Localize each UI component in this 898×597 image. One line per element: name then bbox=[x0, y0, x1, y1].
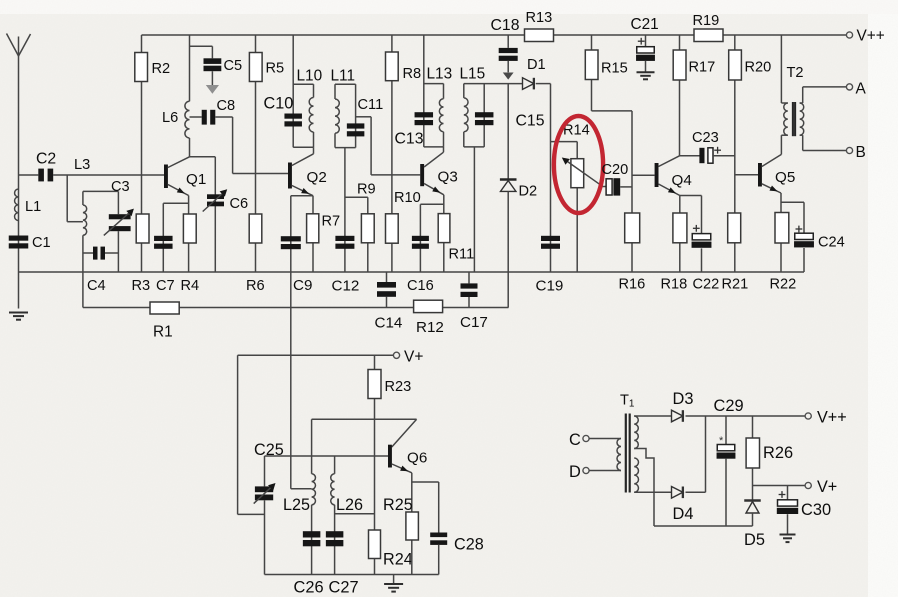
svg-text:C21: C21 bbox=[631, 16, 659, 33]
svg-text:Q1: Q1 bbox=[186, 171, 206, 188]
svg-text:V++: V++ bbox=[817, 409, 847, 427]
svg-text:R18: R18 bbox=[661, 277, 688, 293]
svg-text:R13: R13 bbox=[526, 10, 553, 26]
svg-text:C23: C23 bbox=[692, 130, 719, 146]
svg-text:C1: C1 bbox=[32, 235, 51, 251]
svg-text:R6: R6 bbox=[246, 278, 265, 294]
svg-text:D1: D1 bbox=[527, 57, 546, 73]
svg-text:R19: R19 bbox=[693, 13, 720, 29]
svg-text:C25: C25 bbox=[254, 441, 284, 459]
svg-text:C29: C29 bbox=[714, 397, 744, 415]
svg-text:Q3: Q3 bbox=[438, 169, 458, 186]
svg-text:C2: C2 bbox=[36, 151, 56, 168]
svg-text:R9: R9 bbox=[357, 182, 376, 198]
svg-text:C3: C3 bbox=[111, 179, 130, 195]
svg-text:R20: R20 bbox=[745, 60, 772, 76]
svg-text:R1: R1 bbox=[153, 324, 173, 341]
svg-text:D4: D4 bbox=[673, 505, 694, 523]
svg-text:R21: R21 bbox=[722, 277, 749, 293]
svg-text:Q2: Q2 bbox=[307, 169, 327, 186]
svg-text:R15: R15 bbox=[601, 61, 628, 77]
svg-text:Q5: Q5 bbox=[775, 169, 795, 186]
svg-text:R24: R24 bbox=[383, 551, 413, 569]
svg-text:V++: V++ bbox=[857, 28, 885, 45]
svg-text:*: * bbox=[719, 435, 724, 447]
svg-text:C13: C13 bbox=[395, 131, 424, 148]
svg-text:Q4: Q4 bbox=[672, 172, 692, 189]
svg-text:C12: C12 bbox=[332, 278, 360, 295]
svg-text:L6: L6 bbox=[162, 110, 178, 126]
svg-text:C11: C11 bbox=[358, 97, 384, 113]
svg-text:L3: L3 bbox=[74, 157, 90, 173]
svg-text:C: C bbox=[569, 431, 581, 449]
svg-text:R2: R2 bbox=[152, 61, 171, 77]
svg-text:C17: C17 bbox=[460, 314, 488, 331]
svg-text:C24: C24 bbox=[818, 235, 845, 251]
svg-text:C5: C5 bbox=[224, 58, 243, 74]
svg-text:L15: L15 bbox=[460, 66, 486, 83]
svg-text:R5: R5 bbox=[266, 61, 285, 77]
svg-text:C18: C18 bbox=[491, 17, 520, 34]
svg-text:V+: V+ bbox=[404, 349, 423, 366]
svg-text:R10: R10 bbox=[394, 190, 421, 206]
svg-text:C6: C6 bbox=[230, 196, 249, 212]
svg-text:C7: C7 bbox=[156, 278, 175, 294]
svg-text:R26: R26 bbox=[763, 444, 793, 462]
svg-text:V+: V+ bbox=[817, 478, 837, 496]
svg-text:R12: R12 bbox=[416, 319, 444, 336]
svg-text:R14: R14 bbox=[563, 123, 590, 139]
svg-text:R4: R4 bbox=[181, 278, 200, 294]
svg-text:R7: R7 bbox=[322, 214, 341, 230]
svg-text:C15: C15 bbox=[516, 113, 545, 130]
svg-text:C22: C22 bbox=[693, 277, 720, 293]
svg-text:C14: C14 bbox=[375, 315, 403, 332]
svg-text:D: D bbox=[569, 463, 581, 481]
svg-text:C16: C16 bbox=[407, 278, 434, 294]
svg-text:C30: C30 bbox=[801, 501, 831, 519]
svg-text:R16: R16 bbox=[619, 277, 646, 293]
svg-text:D3: D3 bbox=[673, 390, 694, 408]
svg-text:L26: L26 bbox=[336, 496, 363, 514]
svg-text:C19: C19 bbox=[536, 278, 564, 295]
svg-text:R3: R3 bbox=[132, 278, 151, 294]
svg-text:C20: C20 bbox=[602, 162, 629, 178]
svg-text:C8: C8 bbox=[217, 98, 236, 114]
svg-text:C27: C27 bbox=[329, 579, 359, 597]
svg-text:L25: L25 bbox=[283, 496, 310, 514]
svg-text:T2: T2 bbox=[787, 65, 804, 81]
svg-text:R11: R11 bbox=[449, 247, 475, 263]
svg-text:C10: C10 bbox=[264, 95, 294, 113]
svg-text:D5: D5 bbox=[744, 531, 765, 549]
svg-text:L13: L13 bbox=[427, 66, 453, 83]
svg-text:L11: L11 bbox=[331, 68, 356, 85]
svg-text:A: A bbox=[856, 81, 867, 98]
svg-text:R8: R8 bbox=[403, 66, 422, 82]
svg-text:L10: L10 bbox=[297, 68, 323, 85]
svg-text:C9: C9 bbox=[293, 277, 312, 294]
svg-text:Q6: Q6 bbox=[407, 450, 427, 467]
svg-text:R25: R25 bbox=[383, 496, 413, 514]
svg-text:C4: C4 bbox=[87, 278, 106, 294]
svg-text:B: B bbox=[856, 144, 866, 161]
svg-text:R22: R22 bbox=[770, 277, 797, 293]
svg-text:L1: L1 bbox=[25, 199, 41, 215]
svg-text:C26: C26 bbox=[294, 579, 324, 597]
svg-text:R17: R17 bbox=[689, 60, 716, 76]
svg-text:C28: C28 bbox=[454, 536, 484, 554]
svg-text:R23: R23 bbox=[385, 379, 412, 395]
svg-text:D2: D2 bbox=[519, 184, 538, 200]
